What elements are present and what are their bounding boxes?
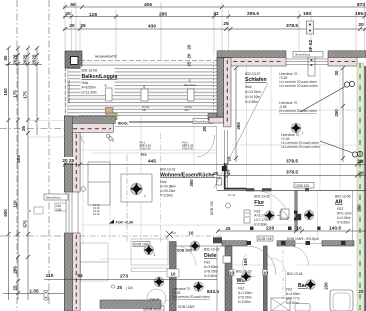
svg-text:20: 20	[187, 53, 192, 58]
svg-text:19 19: 19 19	[93, 212, 100, 216]
svg-text:U=11.30m: U=11.30m	[82, 90, 97, 94]
svg-text:10: 10	[263, 270, 268, 275]
svg-text:378.5: 378.5	[286, 159, 298, 165]
svg-text:25: 25	[187, 61, 192, 66]
svg-text:110: 110	[13, 200, 18, 208]
svg-text:273: 273	[120, 274, 128, 280]
svg-text:U=14.92m: U=14.92m	[245, 95, 261, 99]
svg-text:10: 10	[296, 226, 302, 232]
svg-text:25: 25	[69, 158, 75, 164]
svg-text:25: 25	[23, 54, 28, 59]
svg-text:285: 285	[159, 12, 167, 18]
svg-text:RIGOL: RIGOL	[118, 121, 128, 125]
svg-text:1.55: 1.55	[29, 289, 39, 295]
svg-text:20: 20	[214, 171, 219, 176]
svg-text:U=2.06m: U=2.06m	[337, 216, 351, 220]
svg-text:U=8.05m: U=8.05m	[204, 270, 218, 274]
svg-text:A=13.91m²: A=13.91m²	[245, 90, 262, 94]
svg-text:h=2.60m: h=2.60m	[204, 274, 217, 278]
svg-text:A=4.94m²: A=4.94m²	[286, 292, 301, 296]
svg-text:DOB 105/9: DOB 105/9	[178, 305, 194, 309]
svg-text:h=2.60m: h=2.60m	[245, 100, 258, 104]
svg-text:FSZ: FSZ	[286, 288, 292, 292]
svg-text:2x Leerrohr 20 nach oben: 2x Leerrohr 20 nach oben	[279, 109, 317, 113]
svg-text:25: 25	[13, 285, 18, 290]
svg-text:FIX: FIX	[141, 153, 147, 157]
svg-text:110: 110	[46, 273, 54, 279]
svg-text:20: 20	[65, 11, 71, 17]
svg-text:Rigel Stoss: Rigel Stoss	[184, 84, 197, 87]
svg-text:20: 20	[358, 171, 364, 177]
svg-text:20: 20	[62, 158, 68, 164]
svg-text:20: 20	[359, 289, 364, 294]
svg-text:DOB 105/9 - KR-Spot: DOB 105/9 - KR-Spot	[287, 237, 319, 241]
svg-text:228: 228	[266, 226, 274, 232]
svg-text:U=5.09m: U=5.09m	[238, 296, 252, 300]
svg-text:140.5: 140.5	[329, 226, 341, 232]
svg-text:( DA: ( DA	[126, 286, 133, 290]
svg-text:U=9.77m: U=9.77m	[286, 297, 300, 301]
svg-text:25: 25	[223, 21, 229, 27]
svg-text:378.5: 378.5	[286, 23, 298, 29]
svg-text:20: 20	[187, 44, 192, 49]
svg-text:175: 175	[23, 91, 28, 99]
svg-text:870: 870	[357, 2, 365, 8]
svg-text:DOB 10/8: DOB 10/8	[177, 249, 192, 253]
svg-text:Diele: Diele	[204, 253, 217, 259]
svg-text:Balkon/Loggia: Balkon/Loggia	[82, 74, 118, 80]
svg-text:SF SZ: SF SZ	[308, 39, 313, 52]
svg-text:20: 20	[23, 59, 28, 64]
svg-text:U=20.20m: U=20.20m	[160, 189, 176, 193]
svg-text:190: 190	[303, 11, 311, 17]
svg-text:20: 20	[357, 159, 363, 165]
svg-text:20: 20	[202, 126, 207, 131]
svg-text:DOB 105: DOB 105	[210, 201, 214, 215]
svg-text:AR: AR	[335, 200, 343, 206]
svg-text:42: 42	[213, 11, 219, 17]
svg-text:Beschriftung: Beschriftung	[296, 53, 311, 57]
svg-text:h=2.60m: h=2.60m	[160, 194, 173, 198]
svg-text:405: 405	[144, 2, 152, 8]
svg-text:240: 240	[142, 109, 147, 112]
svg-text:A=20.98m²: A=20.98m²	[160, 185, 177, 189]
svg-text:B02-13-07: B02-13-07	[245, 72, 261, 76]
svg-text:2x Leerrohr 20 nach oben: 2x Leerrohr 20 nach oben	[172, 295, 210, 299]
svg-text:Beschriftung: Beschriftung	[195, 121, 210, 124]
svg-text:1x Leerrohr 20 nach unten: 1x Leerrohr 20 nach unten	[281, 145, 320, 149]
svg-text:50: 50	[3, 55, 8, 60]
svg-text:20: 20	[358, 22, 364, 28]
svg-text:250: 250	[334, 109, 339, 117]
svg-text:DOB 105: DOB 105	[296, 184, 310, 188]
svg-text:25: 25	[226, 226, 231, 231]
svg-text:STB-0.40: STB-0.40	[182, 147, 194, 151]
svg-text:175: 175	[13, 90, 18, 98]
svg-text:205.5: 205.5	[247, 11, 259, 17]
svg-text:20: 20	[13, 59, 18, 64]
svg-text:10: 10	[189, 231, 194, 236]
svg-text:Flur: Flur	[254, 200, 264, 206]
svg-text:DOB 105: DOB 105	[258, 237, 272, 241]
svg-text:Wohnen/Essen/Küche: Wohnen/Essen/Küche	[160, 173, 214, 179]
svg-text:300: 300	[189, 179, 194, 187]
svg-text:FSZ: FSZ	[337, 207, 343, 211]
svg-text:10: 10	[171, 272, 176, 277]
svg-text:B02-13-01: B02-13-01	[160, 168, 176, 172]
svg-text:240: 240	[56, 208, 62, 212]
svg-text:230: 230	[324, 282, 329, 290]
svg-text:54: 54	[77, 273, 83, 279]
svg-text:2: 2	[154, 253, 156, 257]
svg-text:25: 25	[32, 54, 37, 59]
svg-text:204: 204	[16, 155, 21, 163]
svg-text:Holz: Holz	[82, 81, 89, 85]
svg-text:575: 575	[23, 220, 28, 228]
svg-text:199.5: 199.5	[355, 11, 366, 17]
svg-text:A=1.50m²: A=1.50m²	[238, 291, 253, 295]
svg-text:Beschriftung: Beschriftung	[46, 195, 61, 199]
svg-text:150: 150	[3, 88, 8, 96]
svg-text:25: 25	[117, 285, 122, 290]
svg-text:430: 430	[148, 24, 156, 30]
svg-text:378.5: 378.5	[286, 170, 298, 176]
svg-text:1x Leerrohr 20 nach unten: 1x Leerrohr 20 nach unten	[279, 84, 318, 88]
svg-text:1: 1	[302, 131, 304, 135]
svg-text:FSZ: FSZ	[204, 261, 210, 265]
svg-text:2x (1x: 2x (1x	[228, 193, 236, 197]
svg-text:B02-13-06: B02-13-06	[335, 194, 351, 198]
svg-text:20: 20	[32, 59, 37, 64]
svg-text:OK BAUKPLATTE: OK BAUKPLATTE	[95, 54, 117, 58]
svg-text:h=2.60m: h=2.60m	[238, 300, 251, 304]
svg-text:365: 365	[236, 122, 241, 130]
svg-text:445: 445	[148, 159, 156, 165]
svg-text:28: 28	[13, 54, 18, 59]
svg-text:B02-13-05: B02-13-05	[254, 195, 270, 199]
svg-text:STB-0.40: STB-0.40	[140, 147, 152, 151]
svg-text:20: 20	[334, 70, 339, 75]
svg-text:600: 600	[3, 209, 8, 217]
svg-text:240: 240	[185, 109, 190, 112]
svg-text:BRETTSCHALUNG: BRETTSCHALUNG	[67, 80, 71, 103]
svg-text:FOK +2,88: FOK +2,88	[116, 221, 134, 225]
svg-text:h=2.60m: h=2.60m	[337, 221, 350, 225]
svg-text:B02-13-08: B02-13-08	[82, 69, 98, 73]
svg-text:289: 289	[13, 266, 18, 274]
svg-text:10: 10	[229, 270, 234, 275]
svg-text:20: 20	[69, 23, 75, 29]
svg-text:128: 128	[89, 12, 97, 18]
svg-text:Schlafen: Schlafen	[245, 77, 267, 83]
svg-text:50: 50	[70, 2, 76, 8]
svg-text:B02-13-04: B02-13-04	[287, 272, 303, 276]
svg-text:Holz: Holz	[160, 180, 167, 184]
svg-text:250: 250	[357, 204, 362, 212]
svg-text:1: 1	[144, 194, 146, 198]
svg-text:h=2.60m: h=2.60m	[286, 301, 299, 305]
svg-text:165: 165	[243, 258, 248, 266]
svg-text:25: 25	[21, 126, 26, 131]
svg-text:Holz: Holz	[245, 85, 252, 89]
svg-text:3: 3	[112, 139, 114, 143]
svg-text:25: 25	[80, 23, 86, 29]
svg-text:A=8.55m²: A=8.55m²	[82, 86, 97, 90]
svg-text:Ø=0.10m²: Ø=0.10m²	[337, 212, 353, 216]
svg-text:FSZ: FSZ	[238, 287, 244, 291]
